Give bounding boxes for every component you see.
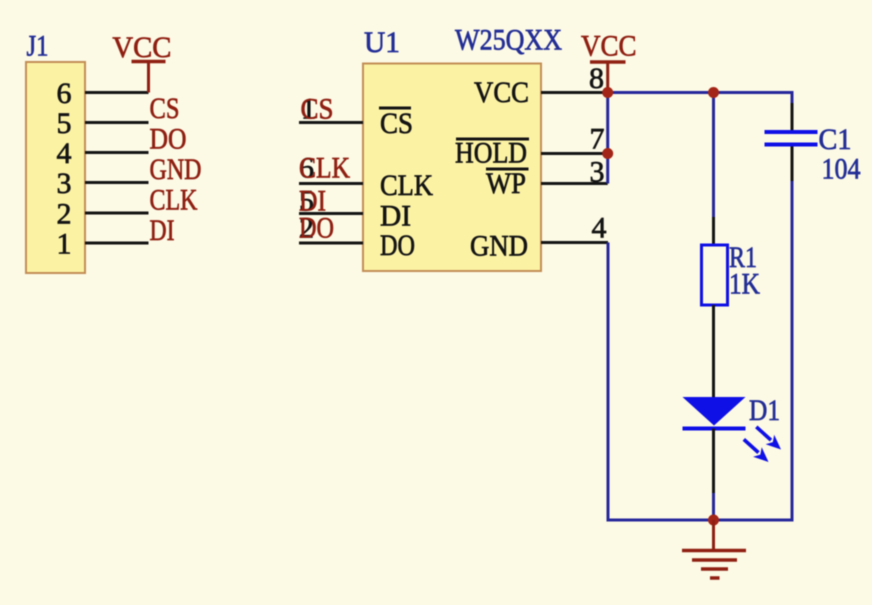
wire J1 pin 4 <box>85 151 149 154</box>
svg-text:3: 3 <box>590 156 605 189</box>
junction at pin 7 <box>602 148 613 159</box>
svg-text:CLK: CLK <box>150 183 198 216</box>
LED D1 pin bottom <box>712 429 715 494</box>
wire J1 pin 1 <box>85 242 149 245</box>
resistor R1 pin bottom <box>712 305 715 397</box>
wire U1 WP pin 3 <box>541 182 608 185</box>
svg-text:7: 7 <box>590 123 605 156</box>
svg-text:8: 8 <box>589 62 604 95</box>
svg-text:DO: DO <box>150 122 187 155</box>
junction at VCC rail / R1 branch <box>708 87 719 98</box>
wire U1 VCC pin 8 <box>541 91 608 94</box>
svg-text:D1: D1 <box>749 394 780 427</box>
svg-text:1K: 1K <box>729 268 760 301</box>
svg-text:5: 5 <box>57 107 72 140</box>
svg-text:DO: DO <box>299 212 334 245</box>
svg-text:WP: WP <box>486 167 526 200</box>
wire LED to bottom rail <box>712 493 715 520</box>
power symbol VCC at U1 <box>581 29 637 92</box>
svg-text:GND: GND <box>470 230 528 263</box>
wire J1 pin 3 <box>85 181 149 184</box>
power symbol VCC at J1 <box>112 31 171 93</box>
svg-text:W25QXX: W25QXX <box>455 24 562 57</box>
svg-text:GND: GND <box>150 153 202 186</box>
svg-text:CLK: CLK <box>299 152 350 185</box>
ground symbol <box>682 520 746 578</box>
resistor R1 body <box>702 245 728 305</box>
svg-text:1: 1 <box>57 228 72 261</box>
svg-text:DI: DI <box>380 200 411 233</box>
LED D1 cathode bar <box>683 427 746 431</box>
svg-text:CLK: CLK <box>380 169 433 202</box>
resistor R1 pin top <box>712 217 715 245</box>
wire VCC rail down to R1 <box>712 93 715 218</box>
wire U1 CLK pin <box>299 182 363 185</box>
connector J1 body <box>26 62 85 273</box>
wire J1 pin 2 <box>85 212 149 215</box>
capacitor C1 pin top <box>791 103 794 130</box>
svg-text:3: 3 <box>57 167 72 200</box>
LED D1 light arrow upper <box>756 427 781 450</box>
wire GND net vertical from pin 4 <box>607 243 610 521</box>
capacitor C1 pin bottom <box>791 147 794 182</box>
LED D1 anode triangle <box>683 397 746 426</box>
LED D1 light arrow lower <box>744 439 769 462</box>
wire VCC rail horizontal <box>608 91 792 94</box>
junction at pin 8 / VCC <box>602 87 613 98</box>
wire U1 GND pin 4 <box>541 241 608 244</box>
wire U1 DI pin <box>299 212 363 215</box>
svg-text:CS: CS <box>150 92 180 125</box>
svg-text:4: 4 <box>57 137 72 170</box>
svg-text:HOLD: HOLD <box>455 137 527 170</box>
svg-text:104: 104 <box>822 153 861 186</box>
IC U1 body <box>363 64 541 272</box>
junction at bottom rail / ground <box>708 515 719 526</box>
wire J1 pin 5 <box>85 121 149 124</box>
wire GND net bottom rail <box>607 519 793 522</box>
wire U1 CS pin <box>299 121 363 124</box>
svg-text:CS: CS <box>301 93 334 126</box>
wire C1 top connection <box>791 91 794 105</box>
wire VCC to HOLD/WP vertical <box>606 93 609 184</box>
svg-text:VCC: VCC <box>581 29 637 62</box>
svg-text:J1: J1 <box>27 30 49 63</box>
svg-text:U1: U1 <box>364 26 400 59</box>
svg-text:6: 6 <box>57 77 72 110</box>
wire U1 HOLD pin 7 <box>541 152 608 155</box>
wire U1 DO pin <box>299 242 363 245</box>
svg-text:VCC: VCC <box>112 31 171 64</box>
svg-text:DI: DI <box>150 214 175 247</box>
capacitor C1 plates <box>765 132 818 145</box>
svg-text:4: 4 <box>592 212 607 245</box>
wire C1 bottom connection <box>791 181 794 522</box>
svg-text:DO: DO <box>380 229 415 262</box>
svg-text:CS: CS <box>380 107 413 140</box>
svg-text:2: 2 <box>57 198 72 231</box>
wire J1 pin 6 <box>85 91 149 94</box>
svg-text:C1: C1 <box>819 123 852 156</box>
svg-text:VCC: VCC <box>474 76 529 109</box>
